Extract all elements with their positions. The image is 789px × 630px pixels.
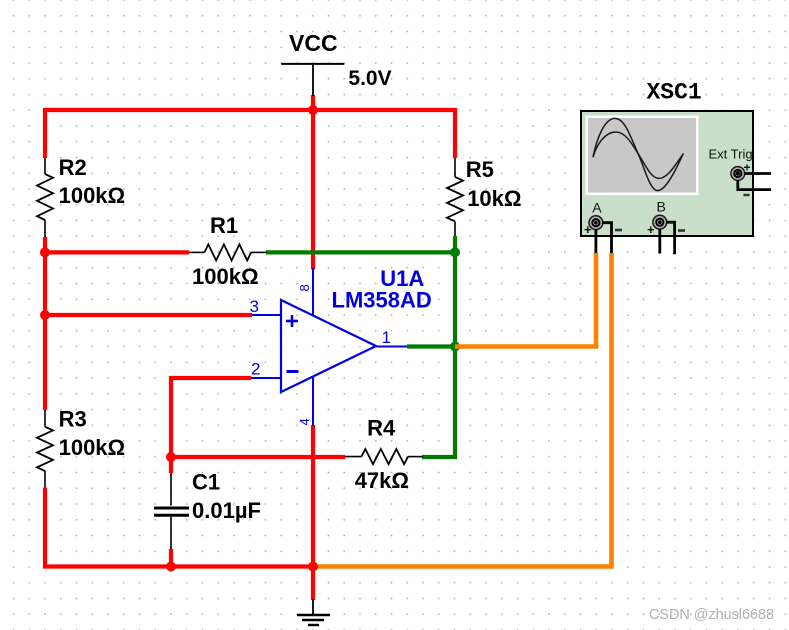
channel A minus mark — [615, 229, 622, 232]
node pin3 row junction dot — [40, 310, 50, 320]
wire blue pin 2 lead — [251, 377, 281, 379]
label XSC1 — [647, 80, 702, 106]
channel B minus mark — [678, 229, 685, 232]
svg-text:R1: R1 — [210, 213, 238, 238]
svg-text:XSC1: XSC1 — [647, 80, 702, 106]
svg-text:R4: R4 — [367, 416, 396, 441]
label R3 — [59, 407, 87, 432]
node output junction dot — [450, 342, 460, 352]
wire red R3 bottom to bottom bus — [45, 488, 313, 567]
ground — [297, 599, 330, 625]
svg-text:100kΩ: 100kΩ — [192, 264, 259, 289]
wire green R5 bottom / output vertical / to R4 — [422, 236, 455, 457]
svg-text:1: 1 — [382, 328, 391, 347]
wire red pin 4 down to ground junction — [311, 425, 315, 600]
resistor R5 — [447, 158, 463, 236]
svg-text:R2: R2 — [59, 155, 87, 180]
node C1 bottom junction dot — [166, 562, 176, 572]
svg-text:4: 4 — [297, 418, 312, 425]
pin number 3 — [250, 297, 259, 316]
wire red R1 row left segment — [45, 250, 189, 254]
oscilloscope XSC1 body — [581, 111, 753, 236]
wire channel A minus stub — [602, 223, 612, 253]
wire red pin 3 row — [45, 313, 252, 317]
svg-text:LM358AD: LM358AD — [332, 288, 432, 313]
wire channel B plus stub — [658, 229, 661, 254]
wire red pin 2 row and feedback vertical — [171, 378, 251, 457]
svg-text:CSDN @zhusl6688: CSDN @zhusl6688 — [649, 607, 774, 623]
wire blue pin 3 lead — [252, 314, 281, 316]
wire channel B minus stub — [666, 222, 675, 254]
label U1A — [380, 266, 424, 291]
svg-text:10kΩ: 10kΩ — [467, 186, 521, 211]
ext trig plus mark — [744, 161, 751, 175]
label VCC — [289, 30, 338, 56]
label R1 — [210, 213, 238, 238]
value 100kΩ (R2) — [59, 183, 126, 208]
pin number 1 — [382, 328, 391, 347]
resistor R2 — [37, 158, 53, 237]
wire green R1 row right segment — [266, 250, 455, 254]
wire red feedback horizontal to R4 — [171, 455, 345, 459]
resistor R4 — [345, 449, 423, 464]
svg-text:5.0V: 5.0V — [348, 67, 391, 90]
pin number 4 (rotated) — [297, 418, 312, 425]
pin number 8 (rotated) — [297, 284, 312, 291]
wire channel A plus stub — [595, 229, 598, 253]
svg-text:B: B — [657, 199, 666, 215]
wire red left vertical R2 bottom to R3 top — [43, 237, 47, 410]
channel A plus mark — [584, 222, 592, 237]
node VCC junction dot — [308, 105, 318, 115]
wire orange output to scope channel A+ — [455, 253, 596, 347]
svg-text:2: 2 — [251, 360, 260, 379]
svg-text:8: 8 — [297, 284, 312, 291]
wire green op-amp output segment — [407, 344, 455, 348]
ext trig minus mark — [743, 194, 749, 196]
svg-text:C1: C1 — [192, 469, 220, 494]
label channel B — [657, 199, 666, 215]
channel A connector — [589, 216, 603, 230]
value 0.01µF — [192, 498, 261, 523]
wire red VCC vertical to op-amp pin 8 — [311, 95, 315, 270]
label R5 — [466, 157, 494, 182]
svg-text:A: A — [592, 199, 602, 215]
oscilloscope screen — [586, 116, 699, 196]
wire red C1 top stub — [169, 457, 173, 473]
wire blue pin 8 lead — [312, 268, 314, 316]
svg-text:47kΩ: 47kΩ — [355, 468, 409, 493]
node ground junction dot — [308, 562, 318, 572]
op-amp plus input mark — [286, 315, 298, 327]
wire ext trig plus stub — [745, 172, 772, 175]
wire red top bus from R2 top to R5 top — [45, 110, 455, 158]
watermark — [649, 607, 774, 623]
value 10kΩ — [467, 186, 521, 211]
channel B plus mark — [647, 222, 655, 237]
op-amp U1 triangle — [281, 300, 376, 392]
value 47kΩ — [355, 468, 409, 493]
svg-text:Ext Trig: Ext Trig — [709, 147, 753, 162]
wire orange ground bus to scope channel A- — [313, 253, 612, 567]
wire blue pin 4 lead — [312, 377, 314, 427]
svg-text:100kΩ: 100kΩ — [59, 435, 126, 460]
svg-text:R3: R3 — [59, 407, 87, 432]
oscilloscope trace 1 — [593, 118, 683, 190]
oscilloscope trace 2 — [593, 132, 683, 178]
wire ext trig minus stub — [738, 180, 771, 190]
value 100kΩ (R1) — [192, 264, 259, 289]
op-amp minus input mark — [287, 370, 299, 373]
label channel A — [592, 199, 602, 215]
label Ext Trig — [709, 147, 753, 162]
node feedback junction dot — [166, 452, 176, 462]
power VCC symbol — [281, 64, 344, 96]
svg-text:+: + — [647, 222, 655, 237]
label LM358AD — [332, 288, 432, 313]
resistor R3 — [37, 410, 53, 488]
wire blue output lead pin 1 — [376, 346, 407, 348]
label R4 — [367, 416, 396, 441]
wire red C1 bottom stub — [169, 549, 173, 567]
value 100kΩ (R3) — [59, 435, 126, 460]
channel B connector — [653, 215, 667, 229]
svg-text:VCC: VCC — [289, 30, 338, 56]
capacitor C1 — [154, 473, 189, 549]
node R5/R1 green junction dot — [450, 247, 460, 257]
node R2/R1 junction dot — [40, 247, 50, 257]
svg-text:0.01µF: 0.01µF — [192, 498, 261, 523]
ext trig connector — [731, 167, 745, 181]
label 5.0V — [348, 67, 391, 90]
svg-text:3: 3 — [250, 297, 259, 316]
svg-text:100kΩ: 100kΩ — [59, 183, 126, 208]
label R2 — [59, 155, 87, 180]
svg-text:+: + — [584, 222, 592, 237]
svg-text:R5: R5 — [466, 157, 494, 182]
pin number 2 — [251, 360, 260, 379]
label C1 — [192, 469, 220, 494]
resistor R1 — [189, 244, 266, 260]
